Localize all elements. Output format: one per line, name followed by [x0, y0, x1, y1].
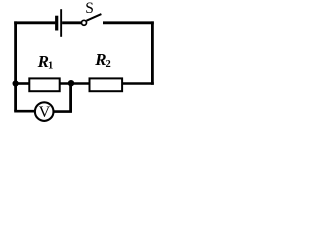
wire: main row right stub from R2 to right vertical [122, 82, 154, 85]
wire: left vertical (top corner down through node A to bottom corner) [14, 21, 17, 111]
battery cell: short thick negative plate [55, 16, 58, 31]
wire: top-right horizontal from switch to corner [103, 21, 154, 24]
resistor R2 box [90, 78, 123, 91]
wire: right vertical [151, 21, 154, 84]
switch S pivot circle [82, 20, 87, 25]
node B junction dot [68, 80, 74, 86]
wire: main row between R1 and R2 through node B [60, 82, 90, 85]
wire: voltmeter row right stub [53, 110, 72, 113]
battery cell: long thin positive plate [60, 9, 62, 37]
resistor R1 box [29, 78, 59, 91]
wire: voltmeter branch right vertical from node B down [69, 84, 72, 113]
voltmeter V circle [35, 102, 54, 121]
node A junction dot [13, 80, 19, 86]
wire: voltmeter row left stub from bottom-left corner [14, 110, 35, 113]
wire: top-left horizontal from corner to battery [14, 21, 55, 24]
svg-text:1: 1 [48, 60, 53, 71]
svg-text:2: 2 [106, 59, 111, 70]
switch S blade (open) [87, 14, 102, 21]
svg-text:V: V [39, 104, 51, 121]
wire: top middle from battery to switch pivot [62, 21, 81, 24]
wire: main row left stub from node A to R1 [14, 82, 30, 85]
svg-text:S: S [85, 0, 94, 17]
